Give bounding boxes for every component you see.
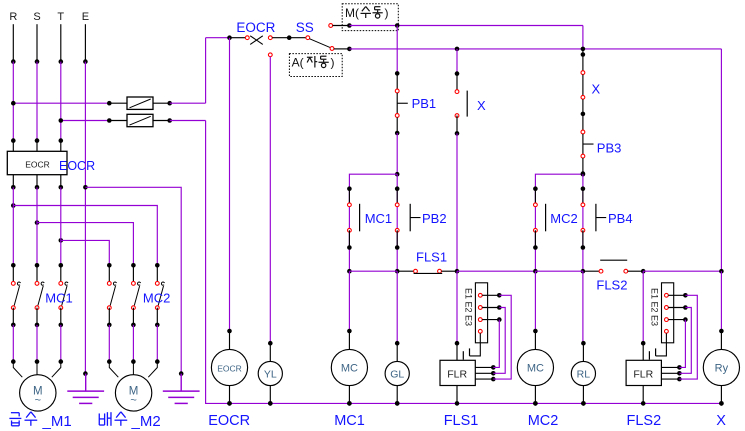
svg-text:X: X [716,413,726,429]
svg-text:MC1: MC1 [334,413,365,429]
svg-text:S: S [33,11,40,23]
svg-text:GL: GL [390,368,404,380]
svg-text:): ) [331,56,335,70]
svg-text:EOCR: EOCR [217,363,242,373]
svg-text:MC2: MC2 [550,211,577,226]
svg-text:EOCR: EOCR [236,20,275,35]
svg-text:A(: A( [292,56,304,70]
svg-text:FLS2: FLS2 [627,413,662,429]
svg-text:YL: YL [264,368,277,380]
svg-text:X: X [477,98,486,113]
svg-text:SS: SS [296,20,314,35]
svg-text:Ry: Ry [715,362,729,374]
svg-text:FLS1: FLS1 [416,250,447,265]
svg-text:FLS1: FLS1 [444,413,479,429]
svg-text:PB4: PB4 [608,211,633,226]
svg-text:MC: MC [527,362,544,374]
svg-text:R: R [9,11,17,23]
svg-text:FLR: FLR [447,368,467,380]
svg-text:_M1: _M1 [42,413,72,430]
svg-text:MC: MC [341,362,358,374]
svg-text:EOCR: EOCR [59,159,95,173]
svg-text:PB2: PB2 [422,211,447,226]
svg-text:): ) [385,6,389,20]
svg-text:T: T [57,11,64,23]
svg-text:E1 E2 E3: E1 E2 E3 [464,288,474,326]
svg-text:PB1: PB1 [412,96,437,111]
svg-text:PB3: PB3 [597,140,622,155]
svg-text:FLR: FLR [633,368,653,380]
svg-text:MC1: MC1 [365,211,392,226]
svg-text:FLS2: FLS2 [596,278,627,293]
svg-text:MC2: MC2 [528,413,559,429]
svg-text:~: ~ [130,395,136,407]
svg-text:E1 E2 E3: E1 E2 E3 [650,288,660,326]
svg-text:EOCR: EOCR [208,413,250,429]
svg-text:M(: M( [345,6,359,20]
svg-text:~: ~ [35,395,41,407]
svg-text:EOCR: EOCR [25,159,50,169]
svg-text:X: X [592,82,601,97]
svg-text:MC1: MC1 [45,290,72,305]
svg-text:E: E [82,11,89,23]
svg-text:RL: RL [577,368,591,380]
svg-text:MC2: MC2 [143,290,170,305]
svg-text:_M2: _M2 [131,413,161,430]
